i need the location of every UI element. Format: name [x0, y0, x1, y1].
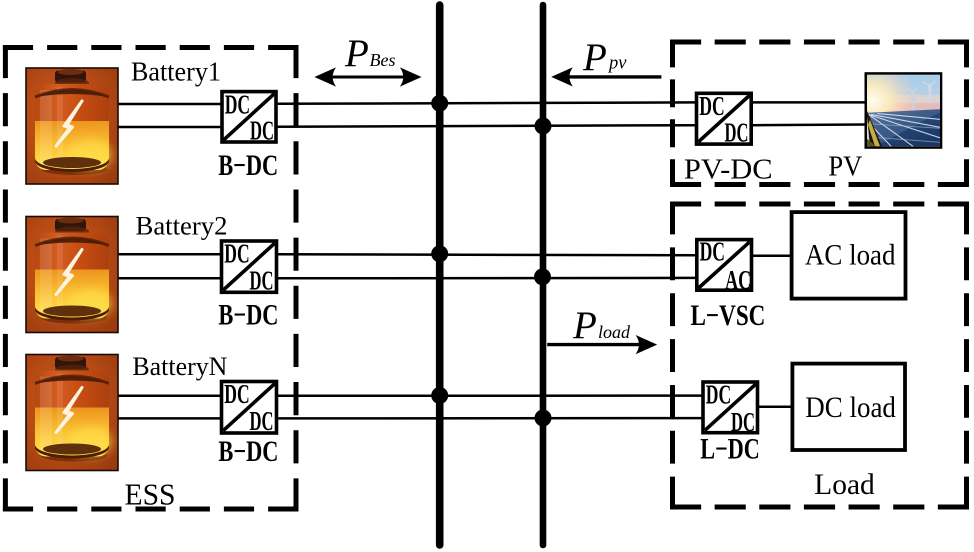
- svg-text:DC: DC: [725, 118, 749, 148]
- arrow P_pv left: [551, 67, 661, 86]
- junction bus2-wire3: [535, 410, 552, 427]
- wire B-DC1 to PV-DC lower (crosses buses): [276, 125, 697, 127]
- svg-text:BatteryN: BatteryN: [132, 351, 227, 381]
- arrow P_Bes double-headed: [314, 67, 421, 86]
- junction bus1-wire2: [431, 245, 448, 262]
- wire B-DC1 to PV-DC upper (crosses buses): [276, 102, 697, 103]
- converter L-DC box: [703, 380, 758, 438]
- svg-text:B−DC: B−DC: [218, 435, 278, 468]
- svg-text:P: P: [572, 304, 597, 347]
- svg-text:PV: PV: [828, 152, 862, 183]
- svg-text:L−VSC: L−VSC: [691, 300, 766, 332]
- wire batteryN to B-DCN upper: [117, 395, 222, 398]
- wire battery2 to B-DC2 lower: [117, 277, 222, 280]
- converter B-DC1 box: [222, 89, 276, 145]
- svg-text:Battery1: Battery1: [131, 56, 221, 86]
- DC bus 1 (left busbar): [436, 5, 444, 545]
- svg-text:DC: DC: [706, 380, 731, 410]
- DC bus 2 (right busbar): [540, 5, 547, 545]
- converter B-DC2 box: [222, 239, 277, 296]
- photo PV panel image: [866, 74, 941, 148]
- battery Battery1 icon: [26, 68, 118, 184]
- wire battery2 to B-DC2 upper: [117, 253, 222, 256]
- svg-text:ESS: ESS: [125, 478, 176, 512]
- svg-text:DC: DC: [699, 91, 724, 121]
- svg-text:pv: pv: [607, 53, 627, 73]
- junction bus1-wire1: [431, 95, 448, 112]
- svg-text:DC: DC: [250, 265, 274, 295]
- junction bus1-wire3: [431, 387, 448, 404]
- Load enclosure dashed box: [670, 202, 969, 510]
- svg-text:P: P: [344, 32, 369, 75]
- svg-text:DC: DC: [224, 379, 249, 409]
- svg-text:P: P: [582, 36, 607, 79]
- converter L-VSC box: [697, 236, 752, 295]
- box AC load: [792, 212, 906, 299]
- ESS enclosure dashed box: [3, 45, 299, 512]
- PV enclosure dashed box: [670, 40, 969, 188]
- box DC load: [792, 364, 905, 450]
- svg-text:B−DC: B−DC: [218, 149, 278, 182]
- svg-text:DC: DC: [224, 239, 249, 269]
- svg-text:DC: DC: [250, 116, 274, 146]
- wire B-DCN to L-DC upper (crosses buses): [277, 394, 704, 397]
- svg-text:DC: DC: [225, 89, 250, 119]
- arrow P_load right: [547, 335, 657, 354]
- battery Battery2 icon: [26, 217, 118, 333]
- wire L-DC to DC load: [758, 405, 793, 408]
- converter B-DCN box: [222, 379, 277, 436]
- svg-text:PV-DC: PV-DC: [684, 155, 773, 186]
- svg-text:AC load: AC load: [805, 238, 896, 271]
- svg-text:Battery2: Battery2: [136, 211, 228, 241]
- wire B-DC2 to L-VSC upper (crosses buses): [277, 254, 697, 255]
- wire battery1 to B-DC1 upper: [118, 103, 222, 106]
- svg-text:L−DC: L−DC: [700, 432, 760, 465]
- svg-text:load: load: [598, 322, 631, 342]
- wire B-DC2 to L-VSC lower (crosses buses): [277, 277, 697, 280]
- svg-text:Bes: Bes: [370, 50, 396, 70]
- wire batteryN to B-DCN lower: [117, 417, 222, 420]
- junction bus2-wire2: [534, 268, 551, 285]
- wire B-DCN to L-DC lower (crosses buses): [277, 417, 704, 420]
- svg-text:DC load: DC load: [805, 391, 896, 424]
- wire PV-DC to PV lower: [751, 123, 866, 126]
- svg-text:DC: DC: [700, 236, 725, 266]
- svg-text:B−DC: B−DC: [218, 298, 278, 331]
- battery BatteryN icon: [26, 355, 118, 471]
- svg-text:Load: Load: [814, 469, 875, 501]
- wire PV-DC to PV upper: [751, 101, 866, 104]
- junction bus2-wire1: [535, 118, 552, 135]
- converter PV-DC box: [697, 91, 752, 148]
- svg-text:AC: AC: [725, 265, 751, 295]
- wire L-VSC to AC load: [752, 254, 792, 257]
- svg-text:DC: DC: [250, 406, 274, 436]
- wire battery1 to B-DC1 lower: [118, 126, 222, 129]
